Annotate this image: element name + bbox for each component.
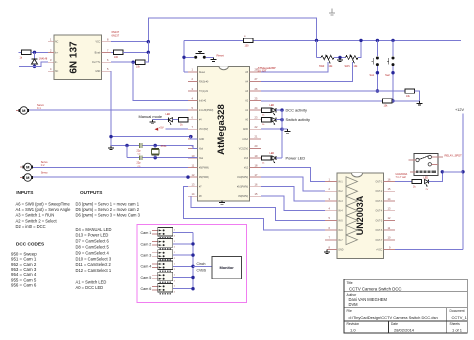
wire gnd run to pin8 — [111, 136, 191, 138]
svg-text:OUT-7: OUT-7 — [376, 240, 383, 242]
wire R9 to ground corner — [415, 91, 420, 101]
svg-text:A4 = SW1 (pot) = Servo Angle: A4 = SW1 (pot) = Servo Angle — [16, 207, 72, 212]
ground flag top grey — [331, 9, 333, 14]
svg-text:Document: Document — [450, 309, 465, 313]
svg-text:Power LED: Power LED — [286, 155, 306, 160]
U3 left pin stubs 1-7 — [325, 181, 337, 183]
resistor R10 A2 pulldown — [383, 99, 393, 103]
svg-text:Monitor: Monitor — [219, 265, 234, 270]
node DCC out junction — [132, 61, 135, 64]
wire servo3 to pin12 — [33, 176, 188, 178]
svg-text:A3 = Switch 1 = RUN: A3 = Switch 1 = RUN — [16, 213, 55, 218]
wire opto out pin6 — [111, 61, 133, 63]
svg-text:A1 = Switch LED: A1 = Switch LED — [76, 280, 107, 285]
ground between pots — [339, 58, 341, 60]
motor M2 servo2 — [23, 165, 26, 168]
svg-text:D9 = CamSelect 4: D9 = CamSelect 4 — [76, 250, 110, 255]
motor M1 servo1 — [19, 109, 22, 112]
svg-text:D8 = CamSelect 5: D8 = CamSelect 5 — [76, 245, 110, 250]
svg-text:Int0-#2: Int0-#2 — [199, 100, 207, 103]
svg-text:DCC activity: DCC activity — [286, 108, 307, 113]
potentiometer VR1 SW0 — [317, 57, 322, 59]
wire #7 to IN-6 — [184, 187, 326, 230]
node junction at diode bottom — [33, 65, 36, 68]
U1 left pin stubs 1-4 — [48, 41, 54, 43]
wire +5V top run — [148, 18, 316, 42]
potentiometer VR2 SW1 — [346, 56, 359, 60]
svg-text:File: File — [347, 309, 352, 313]
switch SW2 select button — [392, 40, 394, 56]
node row B crystal junction — [154, 156, 157, 159]
wire button2 down to A2 row — [392, 66, 394, 101]
wire LED to resistor — [173, 119, 179, 121]
svg-text:6N137: 6N137 — [112, 30, 120, 34]
node row A cap junction — [125, 144, 128, 147]
svg-text:d:\TinyCadDesign\CCTV Camera S: d:\TinyCadDesign\CCTV Camera Switch DCC.… — [349, 315, 438, 320]
wire #11 to IN-2 — [261, 177, 325, 191]
svg-text:Cam 2: Cam 2 — [141, 242, 152, 246]
wire rail to pot1 — [316, 40, 318, 57]
node button1 mid — [376, 71, 379, 74]
svg-text:Cam 6: Cam 6 — [141, 287, 152, 291]
resistor R1 DCC input — [19, 51, 22, 53]
svg-text:VCC(5V): VCC(5V) — [239, 148, 248, 150]
svg-text:Sw1: Sw1 — [370, 74, 375, 77]
node enable junction — [147, 51, 150, 54]
IC U2 AtMega328 body — [198, 66, 250, 201]
node dcc led junction — [280, 108, 283, 111]
wire servo2 to pin11 — [33, 167, 188, 169]
wire reset to pin1 — [184, 71, 188, 73]
U3 VCC pin 9 — [384, 249, 396, 251]
wire coil to 12V — [442, 171, 463, 173]
wire opto VCC pin8 to +5V rail — [111, 41, 148, 43]
svg-text:TX(1)-#1: TX(1)-#1 — [199, 91, 209, 93]
connector J6 shield coil — [160, 293, 172, 295]
node relay 12V junction — [461, 170, 464, 173]
svg-text:NC: NC — [55, 71, 59, 73]
svg-text:IN-6: IN-6 — [338, 230, 343, 232]
wire A2 row — [261, 100, 383, 102]
node vcc rail junction — [147, 40, 150, 43]
wire led to gnd vertical — [276, 109, 282, 111]
svg-text:VCC: VCC — [95, 42, 100, 44]
U2 left pin stubs 1-14 — [188, 71, 198, 73]
svg-text:Cam 5: Cam 5 — [141, 276, 152, 280]
svg-text:Out TTL: Out TTL — [92, 61, 101, 64]
svg-text:A.Ref: A.Ref — [242, 138, 248, 141]
wire VCC pin9 to 12V rail — [395, 249, 463, 251]
node gnd jog — [189, 135, 192, 138]
node relay coil junction — [441, 170, 444, 173]
diode D1 1N4148 — [34, 52, 36, 66]
svg-text:Xtal: Xtal — [199, 157, 203, 160]
wire row A to row B — [126, 146, 128, 158]
motor M3 servo3 — [23, 176, 26, 179]
svg-text:IN-1: IN-1 — [338, 182, 343, 184]
wire servo1 to pin5 — [29, 109, 188, 111]
svg-text:22p: 22p — [137, 149, 142, 152]
svg-text:OUT-2: OUT-2 — [376, 191, 383, 193]
svg-text:IN-2: IN-2 — [338, 191, 343, 193]
svg-text:D7 = CamSelect 6: D7 = CamSelect 6 — [76, 239, 110, 244]
node button2 mid — [391, 71, 394, 74]
wire ground to LED — [153, 119, 169, 121]
wire OUT-1 to resistor — [395, 181, 412, 183]
connector J1 shield coil — [160, 237, 172, 239]
wire led2 to gnd vertical — [276, 119, 282, 121]
svg-text:Date: Date — [391, 322, 398, 326]
monitor box — [212, 256, 241, 278]
capacitor C1 22p — [140, 144, 142, 148]
svg-text:#10(PWM): #10(PWM) — [237, 187, 248, 189]
wire #8 to IN-5 — [191, 196, 325, 220]
svg-text:GND: GND — [243, 129, 248, 131]
svg-text:Cam 1: Cam 1 — [141, 231, 152, 235]
svg-text:RX(0)-#0: RX(0)-#0 — [199, 81, 209, 83]
svg-text:+VCC: +VCC — [376, 250, 383, 252]
svg-text:Switch activity: Switch activity — [286, 117, 310, 122]
wire gnd pin22 — [261, 128, 282, 130]
svg-text:OUT-5: OUT-5 — [376, 220, 383, 222]
wire pot mid with ground tap — [334, 57, 346, 59]
wire jog to pin8 — [191, 137, 198, 139]
svg-text:D13 = Power LED: D13 = Power LED — [76, 233, 109, 238]
svg-text:1.0: 1.0 — [350, 328, 356, 333]
svg-text:Revision: Revision — [347, 322, 360, 326]
wire pullup to rail — [145, 52, 148, 62]
ground under U2 — [221, 200, 223, 202]
wire enable to rail — [123, 51, 148, 53]
svg-text:LED: LED — [270, 152, 275, 155]
svg-text:D4 = MANUAL LED: D4 = MANUAL LED — [76, 227, 112, 232]
relay K1 contacts — [416, 158, 419, 161]
wire Cam 6 to video bus — [173, 288, 193, 290]
svg-text:CCTV_1: CCTV_1 — [452, 315, 468, 320]
resistor R6 dcc led — [260, 109, 263, 111]
LED D2 manual — [168, 118, 170, 122]
node servo3 pin junction — [186, 175, 189, 178]
svg-text:Servo: Servo — [41, 170, 48, 174]
node rail button2 junction — [391, 39, 394, 42]
svg-text:A0 = DCC LED: A0 = DCC LED — [76, 285, 104, 290]
svg-text:Manual mode: Manual mode — [139, 114, 163, 119]
ground reset — [213, 57, 215, 59]
wire DCC signal to INT0 — [133, 62, 188, 100]
svg-text:GND: GND — [95, 71, 100, 73]
ground U3 — [326, 250, 328, 252]
svg-text:1N4148: 1N4148 — [39, 58, 48, 61]
relay contact stubs — [409, 159, 416, 161]
svg-text:Sheets: Sheets — [450, 322, 461, 326]
svg-text:D11 = CamSelect 2: D11 = CamSelect 2 — [76, 262, 112, 267]
wire led cathode bus vertical — [281, 110, 283, 158]
svg-text:IN-7: IN-7 — [338, 240, 343, 242]
wire button1 down to A3 row — [376, 66, 378, 91]
node switch led junction — [280, 118, 283, 121]
svg-text:NC: NC — [55, 42, 59, 44]
svg-text:6N137: 6N137 — [112, 34, 120, 38]
relay K1 SPDT body — [414, 154, 438, 176]
wire button to ground — [206, 56, 214, 58]
node video bus junctions — [191, 242, 194, 245]
wire #12 to IN-1 — [261, 168, 325, 182]
svg-text:+5V: +5V — [159, 125, 164, 129]
svg-text:#9(PWM): #9(PWM) — [238, 196, 248, 198]
svg-text:GND: GND — [199, 139, 204, 141]
svg-text:Cinch: Cinch — [197, 262, 206, 266]
wire +12V rail — [462, 114, 464, 250]
svg-text:Xtal: Xtal — [199, 147, 203, 150]
svg-text:C 1: C 1 — [37, 107, 41, 110]
pot1 wiper arrow to A5 — [327, 56, 331, 64]
node gnd22 junction — [280, 128, 283, 131]
pot2 wiper arrow to A4 — [351, 56, 355, 64]
resistor R4 on bus — [244, 38, 254, 42]
resistor R2 enable pullup — [111, 51, 114, 53]
wire +5V bus — [184, 39, 244, 41]
svg-text:IN-3: IN-3 — [338, 201, 343, 203]
svg-text:LED: LED — [166, 113, 171, 116]
svg-text:D6 (pwm) = Servo 3 = Move Cam: D6 (pwm) = Servo 3 = Move Cam 3 — [76, 213, 141, 218]
svg-text:Title: Title — [347, 281, 353, 285]
svg-text:VCC(5V): VCC(5V) — [199, 129, 208, 131]
svg-text:LED: LED — [270, 104, 275, 107]
ground main — [110, 146, 112, 148]
U3 right pin stubs 16-10 — [384, 181, 396, 183]
svg-text:100: 100 — [114, 56, 119, 59]
relay K1 coil — [416, 171, 436, 174]
svg-text:D12 = CamSelect 1: D12 = CamSelect 1 — [76, 268, 112, 273]
ground manual-mode — [152, 120, 154, 122]
LED D4 switch activity — [272, 118, 276, 122]
wire In+ to opto pin 2 — [31, 51, 48, 53]
svg-text:#11(PWM): #11(PWM) — [237, 177, 248, 179]
wire Cam 4 to video bus — [173, 265, 193, 267]
node button1 A3 junction — [376, 89, 379, 92]
svg-text:GND: GND — [338, 250, 343, 252]
wire #9 to IN-4 — [261, 196, 325, 211]
resistor R5 manual led — [179, 118, 189, 122]
node junction at diode top — [33, 51, 36, 54]
svg-text:#5(PWM): #5(PWM) — [199, 168, 209, 170]
switch SW1 run button — [376, 40, 378, 56]
U3 driver triangles — [346, 177, 358, 187]
svg-text:956 = Cam 6: 956 = Cam 6 — [11, 283, 37, 288]
node row A crystal junction — [154, 144, 157, 147]
svg-text:CVBS: CVBS — [197, 269, 207, 273]
connector J5 shield coil — [160, 282, 172, 284]
power label +5V to VCC pin7 — [155, 128, 159, 131]
camera group box pink — [137, 224, 247, 302]
wire Cam 2 to video bus — [173, 243, 193, 245]
resistor R3 pullup — [136, 60, 146, 64]
title block frame — [344, 279, 467, 333]
svg-text:OUTPUTS: OUTPUTS — [80, 190, 102, 195]
ground led common — [282, 128, 288, 130]
wire LED to relay coil — [429, 172, 443, 182]
crystal X1 — [154, 146, 156, 158]
resistor R7 switch led — [260, 119, 263, 121]
wire Cam 3 to video bus — [173, 254, 193, 256]
node button2 A2 junction — [391, 99, 394, 102]
IC U3 ULN2003A body — [337, 173, 384, 259]
capacitor C2 22p — [140, 156, 142, 160]
svg-text:A6 = SW0 (pot) = SweepTime: A6 = SW0 (pot) = SweepTime — [16, 201, 71, 206]
svg-text:Reset: Reset — [199, 71, 205, 74]
op-amp U1 6N137 optocoupler body — [54, 35, 102, 80]
svg-text:Sw2: Sw2 — [385, 74, 390, 77]
svg-text:DCC CODES: DCC CODES — [16, 241, 44, 246]
wire video bus vertical — [192, 233, 194, 289]
svg-text:#6(PWM): #6(PWM) — [199, 177, 209, 179]
svg-text:In-: In- — [55, 62, 58, 64]
wire bus down to reset — [183, 40, 185, 71]
wire R10 to ground — [392, 100, 420, 102]
svg-text:OUT-1: OUT-1 — [376, 182, 383, 184]
svg-text:SW0: SW0 — [319, 65, 325, 68]
U1 right pin stubs 8-5 — [102, 41, 112, 43]
resistor R8 power led — [260, 157, 263, 159]
wire #10 to IN-3 — [261, 187, 325, 201]
svg-text:100: 100 — [245, 45, 250, 48]
wire Cam 1 to video bus — [173, 232, 193, 234]
ground buttons — [419, 101, 421, 103]
wire led3 to vertical — [276, 157, 282, 159]
svg-text:22p: 22p — [137, 162, 142, 165]
svg-text:D3 (pwm) = Servo 1 = move cam: D3 (pwm) = Servo 1 = move cam 1 — [76, 201, 140, 206]
svg-text:7 in 7 out!: 7 in 7 out! — [396, 176, 407, 179]
svg-text:IN-5: IN-5 — [338, 220, 343, 222]
node bus-top junction — [315, 39, 318, 42]
svg-text:C 2: C 2 — [41, 164, 45, 167]
node rail button1 junction — [376, 39, 379, 42]
svg-text:Int1-#3(PWM): Int1-#3(PWM) — [199, 109, 214, 112]
svg-text:Cam 3: Cam 3 — [141, 254, 152, 258]
svg-text:D2 = int0 = DCC: D2 = int0 = DCC — [16, 224, 46, 229]
switch SW-reset pushbutton — [186, 56, 195, 58]
wire +5V to pin7 — [166, 128, 189, 130]
wire In- input — [19, 62, 48, 66]
wire pot2 to rail — [358, 40, 361, 57]
node reset junction — [182, 56, 185, 59]
connector J3 shield coil — [160, 259, 172, 261]
wire opto GND pin5 down — [110, 71, 112, 145]
svg-text:OUT-4: OUT-4 — [376, 211, 383, 213]
svg-text:INPUTS: INPUTS — [16, 190, 33, 195]
svg-text:/Enab: /Enab — [94, 52, 101, 54]
svg-text:DVM: DVM — [349, 302, 359, 307]
wire xtal row B — [127, 157, 198, 159]
svg-text:RELAY_SPDT: RELAY_SPDT — [445, 153, 463, 157]
svg-text:6N 137: 6N 137 — [69, 41, 80, 74]
svg-text:Dani VAN MIEGHEM: Dani VAN MIEGHEM — [349, 297, 388, 302]
svg-text:SW1: SW1 — [345, 65, 351, 68]
wire Cam 5 to video bus — [173, 277, 193, 279]
wire A3 row — [261, 90, 405, 92]
svg-text:D10 = CamSelect 3: D10 = CamSelect 3 — [76, 256, 112, 261]
resistor R11 relay — [412, 179, 422, 183]
U3 GND pin 8 — [327, 249, 337, 251]
svg-text:OUT-6: OUT-6 — [376, 230, 383, 232]
node rail pot2 junction — [359, 39, 362, 42]
svg-text:CCTV Camera Switch DCC: CCTV Camera Switch DCC — [349, 286, 402, 291]
svg-text:A2 = Switch 2 = Select: A2 = Switch 2 = Select — [16, 218, 58, 223]
svg-text:AtMega328: AtMega328 — [216, 104, 227, 155]
wire xtal row A — [111, 146, 198, 149]
node gnd at opto line — [109, 135, 112, 138]
svg-text:D5 (pwm) = Servo 2 = move cam: D5 (pwm) = Servo 2 = move cam 2 — [76, 207, 140, 212]
svg-text:XTAL: XTAL — [161, 145, 168, 148]
svg-text:+12V: +12V — [455, 108, 464, 112]
svg-text:1 of 1: 1 of 1 — [452, 328, 463, 333]
connector J4 shield coil — [160, 270, 172, 272]
node pot ground junction — [338, 56, 341, 59]
svg-text:Cam 4: Cam 4 — [141, 265, 152, 269]
svg-text:OUT-3: OUT-3 — [376, 201, 383, 203]
wire video bus to monitor — [193, 265, 212, 267]
svg-text:Reset: Reset — [217, 54, 225, 58]
svg-text:28/02/2014: 28/02/2014 — [394, 328, 415, 333]
resistor R9 A3 pulldown — [405, 89, 415, 93]
svg-text:IN-4: IN-4 — [338, 211, 343, 213]
connector J2 shield coil — [160, 248, 172, 250]
U2 right pin stubs 28-15 — [250, 71, 262, 73]
